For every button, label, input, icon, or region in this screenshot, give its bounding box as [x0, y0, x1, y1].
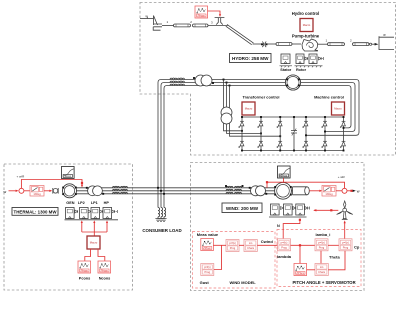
Cp program block: [339, 239, 352, 251]
label + wR: [338, 175, 346, 179]
shaft coupling lp2-lp1: [88, 210, 91, 213]
tailrace pipe 5: [353, 43, 370, 46]
wind speed feedback wire (red): [266, 178, 345, 188]
svg-text:THERMAL: 1300 MW: THERMAL: 1300 MW: [14, 209, 58, 214]
wind speed program block: [226, 240, 239, 252]
wire scope to program (red): [213, 244, 226, 246]
scope Setup (wind): [278, 166, 291, 178]
bus phase C wire: [164, 86, 351, 208]
label PITCH ANGLE + SERVOMOTOR: [293, 280, 356, 285]
wind mass block 3: [296, 204, 305, 215]
ground under stator block: [280, 66, 293, 68]
shaft coupling gen-lp2: [75, 210, 78, 213]
pump-turbine block PT: [302, 39, 318, 51]
thermal step-up transformer T3: [86, 186, 104, 196]
label CONSUMER LOAD: [142, 228, 181, 233]
wire lambda to lamba_i (red): [291, 244, 316, 246]
wires macro to scopes (red): [85, 249, 105, 261]
svg-text:PHam: PHam: [81, 268, 89, 272]
junction dots wind bus: [225, 185, 243, 187]
svg-text:Gust: Gust: [200, 280, 210, 285]
theta limiter block: [315, 264, 328, 276]
machine control macro block: [332, 102, 345, 115]
penstock (diagonal pressure shaft): [226, 24, 254, 44]
thermal torque macro block: [87, 236, 100, 249]
wind line inductors group 2: [235, 186, 242, 194]
node w input: [4, 190, 7, 194]
speed N wire to lambda (red): [283, 219, 301, 239]
hydro motor-generator M1: [285, 75, 300, 90]
label Meas value: [197, 232, 219, 237]
svg-text:ZPfam: ZPfam: [203, 246, 212, 250]
summing point S1: [19, 188, 24, 193]
transformer control macro block: [242, 102, 255, 115]
wind section dashed boundary: [191, 163, 365, 291]
svg-text:CONSUMER LOAD: CONSUMER LOAD: [142, 228, 181, 233]
label Rotor: [296, 68, 307, 72]
wire pitch scope to limiter (red): [307, 269, 315, 271]
label Cp: [354, 245, 360, 250]
thermal section dashed boundary: [4, 164, 133, 290]
wire Cwind to lambda (red): [257, 244, 277, 246]
scope Setup (thermal): [62, 167, 75, 179]
label + w/R: [17, 175, 26, 179]
bridge leg L3: [277, 116, 282, 151]
wire gust to program (red): [214, 245, 222, 269]
governor block 1/Reg (thermal): [30, 186, 44, 197]
thermal line inductors group 2: [121, 186, 128, 194]
turbine mass block LP2: [80, 208, 89, 219]
svg-text:N: N: [277, 224, 280, 228]
load inductor phase C: [161, 208, 166, 222]
lamba_i program block: [315, 239, 328, 251]
wind generator M2: [274, 182, 291, 199]
wind turbine rotor icon: [337, 201, 353, 220]
svg-text:WIND: 200 MW: WIND: 200 MW: [226, 206, 259, 211]
svg-text:Stator: Stator: [280, 68, 291, 72]
labels Pcons Ncons: [79, 276, 111, 280]
rotor supply block 2: [309, 54, 317, 64]
wind speed limiter block: [244, 240, 257, 252]
label N: [277, 224, 280, 228]
wire program to limiter (red): [239, 244, 244, 246]
stator supply block: [281, 54, 290, 64]
svg-text:PHam: PHam: [101, 268, 109, 272]
wire penstock to valve: [253, 43, 263, 45]
wire Cp to limiter (red): [328, 251, 345, 270]
scope Pcons: [78, 261, 91, 273]
svg-text:Rotor: Rotor: [296, 68, 307, 72]
scope ZPfam (pitch): [294, 264, 307, 276]
svg-text:GEN: GEN: [66, 201, 74, 205]
wire lamba_i to Cp (red): [328, 244, 339, 246]
svg-text:lamba_i: lamba_i: [316, 232, 331, 237]
wire junction to pitch scope (red): [299, 245, 301, 263]
wind shaft coupling 2: [293, 207, 296, 210]
svg-text:LP2: LP2: [78, 201, 85, 205]
svg-text:Transformer control: Transformer control: [243, 95, 280, 100]
bus phase B wire: [161, 83, 355, 208]
torque input arrows (red): [81, 220, 108, 236]
lambda program block: [278, 239, 291, 251]
diode right of rotor block 2: [318, 57, 323, 60]
turbine mass block LP1: [91, 208, 100, 219]
svg-text:Hydro control: Hydro control: [292, 11, 319, 16]
shaft end symbols right of wind masses: [305, 207, 310, 210]
wind turbine shaft mass (cylinder): [291, 187, 309, 195]
wire pipe3 to pump-turbine: [292, 43, 301, 45]
shaft end symbols right of HP: [112, 210, 117, 213]
wire PHam to surge tank (red): [208, 11, 222, 17]
label Transformer control: [243, 95, 280, 100]
turbine mass block HP: [103, 208, 112, 219]
diode between rotor blocks: [305, 57, 308, 60]
svg-text:Meas value: Meas value: [197, 232, 219, 237]
svg-text:Theta: Theta: [329, 254, 340, 259]
svg-text:w: w: [357, 190, 360, 194]
DC top rail: [242, 116, 344, 118]
load inductor phase A: [155, 208, 160, 222]
pipe label 1 (tailrace): [326, 38, 328, 42]
scope ZPfam (wind measurement): [201, 239, 214, 251]
svg-text:LP1: LP1: [91, 201, 98, 205]
wires converter transformer to rectifier bridge: [224, 123, 282, 137]
wire w to summing point (red): [9, 190, 19, 192]
wind mass block 1: [271, 204, 280, 215]
bridge leg L5: [322, 116, 327, 151]
junctions machine-side AC to legs: [305, 127, 344, 136]
shaft coupling C1: [53, 188, 58, 194]
wind torque wire (red, from turbine): [313, 209, 338, 211]
thermal line inductors group 1: [113, 186, 120, 194]
svg-text:Pcons: Pcons: [79, 276, 90, 280]
hydro bus transformer T1: [193, 75, 214, 86]
label WIND MODEL: [230, 280, 257, 285]
pitch angle servomotor red dashed box: [277, 230, 361, 287]
svg-text:lambda: lambda: [277, 254, 292, 259]
wire pump-turbine to pipe4: [318, 43, 328, 45]
HYDRO MW annotation box: [230, 54, 272, 63]
svg-text:w: w: [4, 190, 7, 194]
wire valve to pipe 3: [267, 43, 277, 45]
lower 3-phase bus wires: [77, 188, 284, 194]
wind model red dashed box: [193, 232, 276, 289]
scope PHam: [195, 6, 208, 18]
turbine mass block GEN: [66, 208, 75, 219]
label Theta: [329, 254, 340, 259]
svg-text:Setup: Setup: [280, 174, 287, 178]
wire pipe2 to surge tank: [208, 24, 228, 26]
DC link capacitor: [291, 116, 297, 151]
gust program block: [201, 264, 214, 276]
label lamba_i: [316, 232, 331, 237]
bridge leg L1: [239, 116, 244, 151]
rotor supply block 1: [296, 54, 304, 64]
svg-text:ZPfam: ZPfam: [296, 271, 305, 275]
thermal generator GEN: [62, 184, 77, 198]
label Pump-turbine: [292, 33, 320, 38]
speed feedback wire (red): [21, 180, 83, 189]
WIND MW annotation box: [222, 203, 262, 213]
wind transformer T4: [249, 186, 267, 196]
shaft coupling lp1-hp: [100, 210, 103, 213]
hydro bus series inductors group 2: [178, 78, 185, 86]
pipe label 1: [167, 20, 169, 24]
label Stator: [280, 68, 291, 72]
label Machine control: [314, 95, 344, 100]
bridge leg L4: [303, 116, 308, 151]
hydro control macro block: [300, 19, 313, 32]
label Hydro control: [292, 11, 319, 16]
wire shaft to wind governor (red): [309, 190, 322, 192]
valve V1: [261, 42, 267, 48]
shaft baseline under wind masses: [269, 216, 307, 218]
svg-text:Pump-turbine: Pump-turbine: [292, 33, 320, 38]
ground under rotor blocks: [295, 66, 323, 68]
label Cwind: [261, 239, 274, 244]
scope Ncons: [98, 261, 111, 273]
summing point S2: [342, 188, 347, 193]
svg-text:Ncons: Ncons: [99, 276, 111, 280]
wire summing point to governor (red): [24, 190, 30, 192]
tailrace pipe 4: [328, 43, 345, 46]
svg-text:PHam: PHam: [198, 13, 206, 17]
bridge leg L2: [258, 116, 263, 151]
hydro bus series inductors group 1: [170, 78, 177, 86]
wires bus to converter transformer: [224, 80, 230, 108]
svg-text:Cp: Cp: [354, 245, 360, 250]
labels GEN LP2 LP1 HP: [66, 201, 109, 205]
pipe label 2 (tailrace): [350, 38, 352, 42]
dam / intake: [153, 16, 162, 31]
gallery pipe 2: [193, 24, 209, 27]
svg-text:Cwind: Cwind: [261, 239, 274, 244]
wire governor to summing point (red): [336, 190, 342, 192]
svg-text:HYDRO: 258 MW: HYDRO: 258 MW: [232, 56, 269, 61]
hydro section dashed boundary: [140, 3, 396, 156]
bus phase A wire (hydro bus top): [158, 80, 359, 208]
junction dots bus tie: [157, 187, 165, 195]
THERMAL MW annotation box: [12, 208, 58, 216]
wire intake to pipe 1: [162, 24, 174, 26]
svg-text:Machine control: Machine control: [314, 95, 344, 100]
wire governor to shaft (red): [44, 190, 52, 192]
upstream reservoir water level: [140, 18, 154, 20]
gallery pipe 3: [276, 43, 292, 46]
converter transformer T2: [221, 107, 232, 124]
svg-text:PITCH ANGLE + SERVOMOTOR: PITCH ANGLE + SERVOMOTOR: [293, 280, 356, 285]
wire Cp to turbine (red): [344, 220, 346, 238]
svg-text:Setup: Setup: [64, 174, 71, 178]
node w upstream level label: [146, 15, 149, 19]
surge tank ST: [215, 18, 225, 25]
svg-text:HP: HP: [104, 201, 110, 205]
node label 2 at surge tank base: [211, 21, 213, 25]
svg-text:WIND MODEL: WIND MODEL: [230, 280, 257, 285]
shaft baseline under turbine masses: [65, 219, 119, 221]
DC bottom rail: [242, 150, 344, 152]
wind governor block 1/Reg: [322, 186, 336, 197]
downstream reservoir tank: [379, 33, 394, 50]
wind shaft coupling 1: [281, 207, 284, 210]
wire lamba_i to theta limiter (red): [320, 251, 322, 264]
label lambda: [277, 254, 292, 259]
load inductor phase B: [158, 208, 163, 222]
label Gust: [200, 280, 210, 285]
wire pipe5 to downstream tank with arrow: [370, 43, 379, 46]
svg-text:+ w/R: + w/R: [17, 175, 26, 179]
junction taps to converter transformer: [223, 79, 231, 87]
svg-text:+ wR: + wR: [338, 175, 346, 179]
wind line inductors group 1: [226, 186, 233, 194]
pipe label 2: [190, 20, 192, 24]
wind mass block 2: [284, 204, 293, 215]
bridge leg L6: [340, 116, 345, 151]
gallery pipe 1: [174, 24, 191, 27]
wind speed output w: [347, 190, 360, 194]
